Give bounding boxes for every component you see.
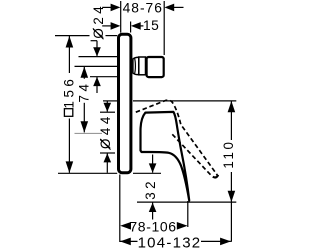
- svg-text:Ø44: Ø44: [98, 113, 113, 149]
- svg-text:156: 156: [61, 76, 76, 109]
- svg-text:15: 15: [143, 18, 159, 33]
- svg-text:32: 32: [143, 178, 158, 200]
- svg-text:74: 74: [76, 81, 91, 103]
- svg-text:48-76: 48-76: [123, 1, 163, 16]
- svg-text:Ø24: Ø24: [91, 3, 106, 39]
- svg-text:78-106: 78-106: [129, 218, 176, 234]
- svg-text:104-132: 104-132: [138, 235, 202, 250]
- svg-text:110: 110: [221, 139, 236, 168]
